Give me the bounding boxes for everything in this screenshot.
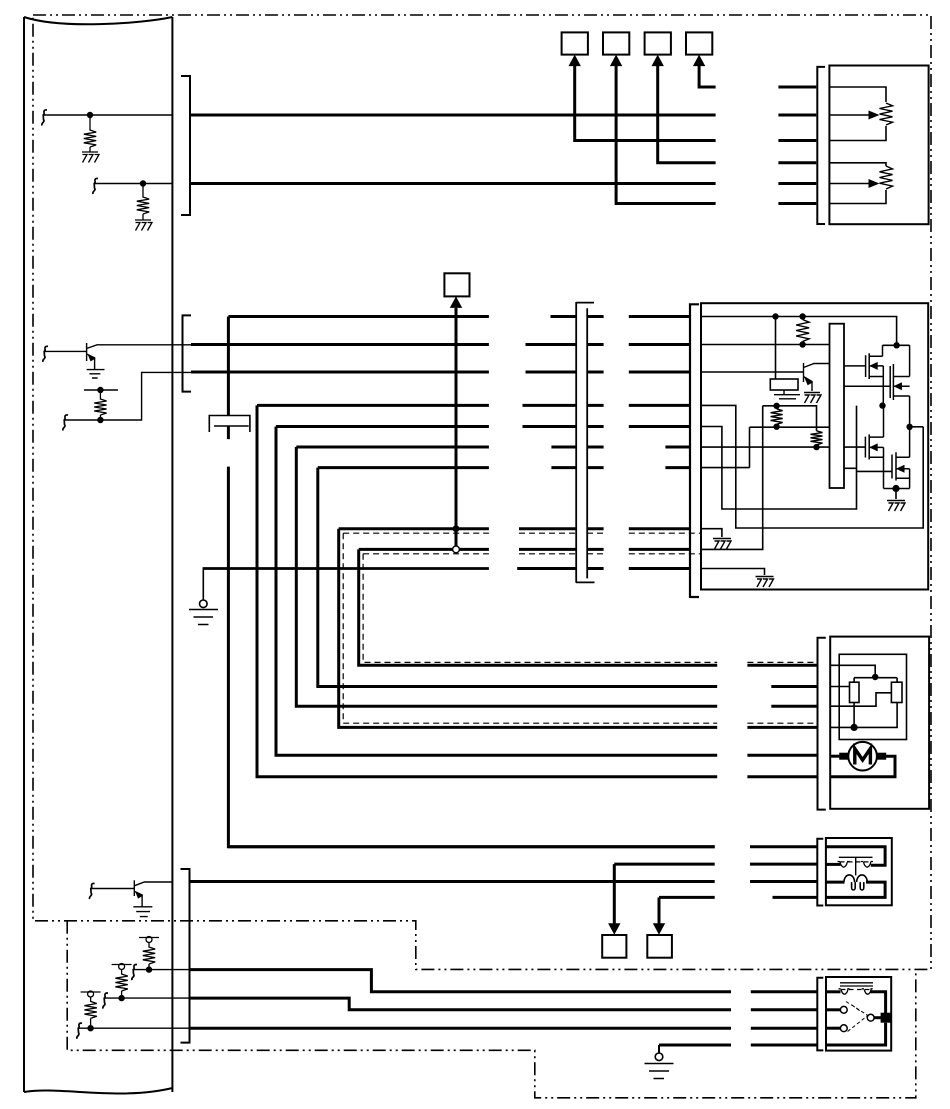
wire: row 10 termination to chassis ground (701, 569, 765, 576)
relay armature stem (855, 857, 857, 875)
IC driver bar (830, 324, 845, 488)
shield dashed row A right (747, 661, 817, 663)
ground: chassis ground shield 1 (713, 539, 731, 550)
switch wiper diagonals (846, 1002, 870, 1032)
wire: throttle row 4 (thick) (257, 404, 489, 407)
transistor Q2 emitter arrowhead (136, 893, 142, 898)
wire: switch pole 1 lead (826, 990, 841, 993)
wiper 2 lead with arrowhead (829, 183, 869, 185)
wire: shield conductor 1 (thick) (339, 527, 489, 530)
junction: node on supply stub (97, 387, 103, 393)
junction: R_p1 to wire (146, 966, 152, 972)
transistor Q3 emitter arrowhead (806, 379, 813, 385)
hook: wire continuation at Q2 base (89, 883, 94, 899)
wire: module row 6 to IC and FET3 gate (701, 446, 865, 448)
wire: throttle row 3 (thick) (191, 371, 489, 374)
cruise actuator clutch box (826, 838, 892, 905)
motor M (throttle control motor) (848, 742, 877, 771)
wire: row-4 side branch with resistor R2 (763, 406, 817, 431)
wire: coil return loop (826, 882, 885, 897)
junction: supply rail node (893, 342, 899, 348)
transistor Q3 (module internal) (804, 363, 830, 391)
shield outline dashed 2 (363, 553, 489, 555)
cruise control mode switch box (826, 977, 891, 1051)
wire: relay common lead (826, 863, 841, 866)
wire: sensor element 2 top lead (829, 163, 886, 166)
wire: branch to terminal T3 (658, 66, 716, 163)
relay contact right (open arrow) (861, 862, 873, 868)
junction: R2 bottom on row5 branch (773, 424, 779, 430)
junction: source bus node (892, 485, 899, 492)
ground: plate symbol under coil box (774, 390, 800, 399)
connector C2 bracket (middle left) (183, 315, 192, 391)
wire: switch input 2 inside ECU (105, 997, 189, 999)
junction: R_p2 to wire (118, 995, 124, 1001)
hook: wire continuation switch input 3 (77, 1023, 82, 1039)
wire: switch line 2 harness (stepped) (190, 998, 817, 1010)
terminal square T2 (603, 32, 629, 54)
hook: wire continuation switch input 2 (103, 993, 108, 1009)
wire: motor harness row F right segment (747, 775, 817, 778)
wire: sensor 1 harness (thick) (190, 114, 716, 117)
wire: switch ground return riser (826, 1023, 886, 1045)
wire: sensor 2 harness (thick) (190, 182, 716, 185)
wire: clutch relay row 1 harness (228, 845, 817, 848)
resistor R3 (module) (811, 431, 823, 447)
wire: shield 1 termination to chassis ground (701, 529, 722, 537)
wire: motor harness row E right segment (747, 754, 817, 757)
arrowhead into terminal T2 (610, 55, 622, 67)
wire: branch to terminal T2 (616, 66, 716, 204)
system boundary sub box (dash-dot-dot border, bottom) (67, 921, 916, 1098)
wire: drop to relay coil box (775, 317, 777, 380)
wire: bridge source bus to ground (884, 489, 910, 500)
terminal square D2 (647, 935, 672, 958)
wire: clutch relay row 4 harness with drop (659, 896, 817, 899)
wire: module row 2 internal (701, 344, 830, 346)
wire: FET supply rail from row 1 (883, 344, 910, 346)
connector C7 bracket (clutch relay) (817, 839, 823, 906)
connector C1 bracket (top left) (181, 76, 190, 215)
potentiometer element 1 (880, 103, 893, 125)
hook: wire continuation sensor return (63, 415, 68, 431)
arrowhead into terminal square (450, 296, 462, 308)
terminal square D1 (602, 935, 626, 958)
relay switch bar (839, 856, 873, 858)
ECU module box (left, torn top/bottom edges) (24, 17, 172, 1093)
F1 body diode arrowhead (869, 362, 878, 370)
switch top bar (840, 983, 873, 986)
relay switch dashed link (840, 861, 871, 863)
wire stub: pedal sensor pin 1 (778, 86, 816, 89)
ground: chassis ground under R_b (135, 220, 152, 231)
wire: motor harness row C right segment (771, 705, 817, 708)
motor M terminal bars (839, 753, 848, 760)
wire stub: pedal sensor pin 3 (778, 139, 816, 142)
wire: IC gate lead to net A riser (844, 467, 857, 469)
arrowhead into terminal T1 (569, 55, 581, 67)
junction: bridge output A node (879, 402, 885, 408)
transistor Q1 (NPN, emitter grounded) (87, 343, 191, 370)
switch contact 2 (open arrow) (840, 1006, 847, 1013)
potentiometer element 2 (880, 166, 893, 189)
wire: branch to terminal T1 (575, 66, 716, 141)
wire: drop to terminal square D1 (613, 864, 616, 929)
wire: row 5 branch to IC (750, 427, 830, 467)
connector stubs left side rows 1-10 (517, 317, 576, 569)
connector C4 bracket (pedal sensor) (817, 67, 825, 224)
wire: gate lead to FET4 (857, 470, 893, 472)
wire: sensor element 1 top lead (829, 87, 886, 102)
wire: module row 5 to bridge output A net (701, 406, 857, 509)
wiper 1 lead with arrowhead (829, 114, 869, 116)
wire: ground line row 10 (203, 567, 489, 570)
wire: throttle row 7 (thick) (318, 466, 489, 469)
wire: sensor feed 1 inside ECU (44, 114, 172, 116)
junction: node on sensor wire 1 (87, 112, 93, 118)
junction: branch node R2 top (773, 403, 779, 409)
wire stub: pedal sensor pin 6 (778, 202, 816, 205)
throttle position sensor inner box (839, 654, 906, 739)
TPS resistor element 1 (850, 682, 860, 702)
switch common contact (open arrow) (867, 1014, 874, 1021)
junction: TPS ground node (851, 724, 858, 731)
connector C8 bracket (mode switch) (817, 978, 823, 1051)
TPS resistor element 2 (891, 682, 902, 702)
wire: clutch relay row 2 harness with drop (614, 863, 817, 866)
F2 body diode arrowhead (893, 382, 902, 390)
wire: sensor element 2 bottom lead (829, 190, 886, 204)
junction: R3 bottom on row6 (813, 444, 819, 450)
ground: chassis ground under Q3 (804, 393, 821, 404)
wire: vertical drop row6 to motor row C (296, 447, 717, 706)
resistor: pull-up R_p2 with supply circle (112, 964, 132, 966)
wire: module row 4 to bridge output B (701, 405, 923, 528)
resistor: pull-up R_p3 with supply circle (81, 991, 101, 993)
resistor R1 (module) (796, 320, 809, 345)
terminal eyelet on shield conductor 2 (453, 546, 460, 553)
wire: motor harness row D right segment (747, 726, 817, 729)
junction: feed taps shield conductor 1 (453, 525, 460, 532)
shield outline dashed 1 (343, 532, 489, 534)
wire: module row 1 internal (701, 317, 897, 346)
shield dashed stubs at connector (519, 533, 604, 554)
wire: TPS wiper 1 lead (830, 686, 849, 688)
junction: node on sensor wire 2 (140, 180, 146, 186)
wire: shield 2 riser to branch node (701, 406, 763, 550)
wire: vertical drop row7 to motor row B (318, 468, 717, 687)
shield dashed outline drop row D (343, 533, 717, 723)
arrowhead into terminal D2 (653, 923, 665, 935)
ground: signal ground under Q1 (87, 370, 105, 378)
MOSFET F3 (low side A) (865, 406, 883, 489)
resistor: pull-down R_a (84, 118, 96, 152)
junction: R1 to row2 (799, 341, 805, 347)
MOSFET F4 (low side B) (892, 427, 910, 489)
transistor Q1 emitter arrowhead (89, 355, 95, 360)
ground: chassis ground under R_a (82, 152, 99, 163)
wire: vertical drop row1 to capacitor and relay feed (228, 317, 714, 847)
wire: TPS wiper 2 lead with step (830, 693, 891, 706)
wire: switch input 3 inside ECU (79, 1027, 189, 1029)
wire: motor harness row A right segment (747, 664, 817, 667)
wire: module row 3 internal to Q3 base (701, 371, 804, 373)
transistor Q1 base wire (45, 350, 87, 352)
junction: TPS supply node (872, 674, 878, 680)
wire: throttle row 5 (thick) (276, 425, 489, 428)
wire: TPS ground rail (830, 703, 897, 728)
throttle actuator control module box (701, 303, 928, 589)
F3 body diode arrowhead (869, 443, 878, 451)
pedal position sensor box (829, 66, 928, 225)
arrowhead into terminal D1 (608, 923, 620, 935)
hook: wire continuation at Q1 base (43, 346, 48, 362)
wire: internal supply stub node (84, 389, 118, 391)
wire: switch input 1 inside ECU (134, 969, 189, 971)
wire: output B link (910, 426, 924, 428)
resistor: pull-up R_c (94, 393, 106, 418)
terminal square T4 (686, 32, 712, 54)
in-line connector bar (576, 302, 594, 583)
wire: coil lead left (826, 881, 845, 884)
wire: branch to terminal T4 (699, 66, 716, 87)
wire: switch pole 2 lead (826, 1008, 841, 1011)
wire: motor feed lead (830, 755, 840, 758)
wire: throttle row 1 (thick) (228, 315, 489, 318)
resistor: pull-down R_b (137, 187, 149, 221)
wire: throttle row 2 (thick) (191, 343, 489, 346)
junction: node resistor to wire (97, 417, 103, 423)
wire: motor harness row B right segment (771, 685, 817, 688)
hook: wire continuation symbol sensor 1 (42, 110, 47, 126)
junction: R_p3 to wire (87, 1025, 93, 1031)
ground: chassis ground row 10 (756, 577, 774, 588)
hook: wire continuation symbol sensor 2 (93, 178, 98, 194)
switch contact 1b (open arrow) (862, 989, 873, 995)
wire: motor return loop (830, 756, 895, 777)
shield dashed row D right (747, 722, 817, 724)
junction: switch common node (881, 1013, 891, 1023)
capacitor / noise filter symbol (209, 416, 250, 433)
wire: clutch relay row 3 harness (190, 880, 817, 883)
harness segment rows 1-10 to throttle body (629, 317, 690, 569)
wire: shield conductor 2 (thick) (359, 548, 489, 551)
wire: contact 1 to common riser (870, 992, 885, 1014)
MOSFET F2 (high side B) (844, 345, 910, 427)
wire stub: pedal sensor pin 2 (778, 114, 816, 117)
connector C3 bracket (bottom left) (181, 869, 190, 1043)
wire: common contact to node (874, 1016, 885, 1019)
relay coil box (module internal) (770, 379, 798, 390)
wire: module row 7 internal (701, 467, 750, 469)
resistor: pull-up R_p1 with supply circle (139, 937, 159, 939)
wire: sensor element 1 bottom lead (829, 126, 886, 141)
wire: switch line 1 harness (stepped) (190, 970, 817, 992)
throttle motor assembly box (830, 637, 929, 809)
connector stubs right side rows 1-10 (587, 317, 604, 569)
shield dashed segment to throttle body (629, 533, 701, 554)
ground: chassis ground FET bridge (887, 501, 905, 512)
wire: switch pole 3 lead (826, 1027, 841, 1030)
wire stub: pedal sensor pin 4 (778, 161, 816, 164)
MOSFET F1 (high side A) (844, 345, 883, 405)
relay contact left (open arrow) (838, 862, 850, 868)
wire: TPS top rail (854, 678, 897, 683)
ground: earth ground with eyelet (switch) (658, 1045, 660, 1053)
wire: switch ground line (659, 1044, 817, 1047)
wire: vertical actuator power feed with up arrow (455, 308, 458, 549)
wire: drop to terminal square D2 (658, 897, 661, 929)
ground: earth ground with eyelet (left) (202, 569, 204, 601)
wire: vertical drop row5 to motor row E (276, 427, 717, 756)
terminal square T1 (562, 32, 588, 54)
F4 body diode arrowhead (896, 465, 905, 473)
terminal square T3 (645, 32, 671, 54)
switch contact 1a (open arrow) (839, 989, 850, 995)
wire: vertical drop row4 to motor row F (257, 405, 717, 776)
wire: shield 1 drop to motor row D (339, 529, 718, 728)
junction: row1 tap to relay coil (772, 313, 778, 319)
connector C6 bracket (throttle motor) (818, 638, 826, 810)
wire: shield 2 drop to motor row A (359, 549, 718, 665)
wire: relay contact feed loop (826, 847, 885, 866)
hook: wire continuation switch input 1 (132, 965, 137, 981)
arrowhead into terminal T4 (693, 55, 705, 67)
transistor Q2 base wire (92, 888, 135, 890)
switch dashed link top (841, 989, 872, 991)
switch contact 3 (open arrow) (840, 1025, 847, 1032)
resistor R2 (module) (771, 409, 783, 427)
relay coil (two loops) (844, 875, 867, 890)
wire: sensor feed 2 inside ECU (95, 183, 172, 185)
wire: TPS supply lead (830, 665, 875, 677)
transistor Q2 (NPN, emitter grounded) (134, 880, 172, 907)
junction: row1 tap to resistor (799, 313, 805, 319)
ground: signal ground under Q2 (133, 907, 152, 917)
arrowhead into terminal T3 (652, 55, 664, 67)
wire stub: pedal sensor pin 5 (778, 182, 816, 185)
terminal square above throttle actuator feed (444, 273, 469, 296)
connector C5 bracket (throttle body) (690, 303, 699, 598)
junction: bridge output B node (906, 424, 912, 430)
wire: switch line 3 harness (190, 1027, 817, 1030)
shield dashed outline drop row A (363, 554, 717, 663)
wire: throttle row 6 (thick) (296, 446, 489, 449)
wire: sensor return inside ECU (65, 372, 191, 420)
